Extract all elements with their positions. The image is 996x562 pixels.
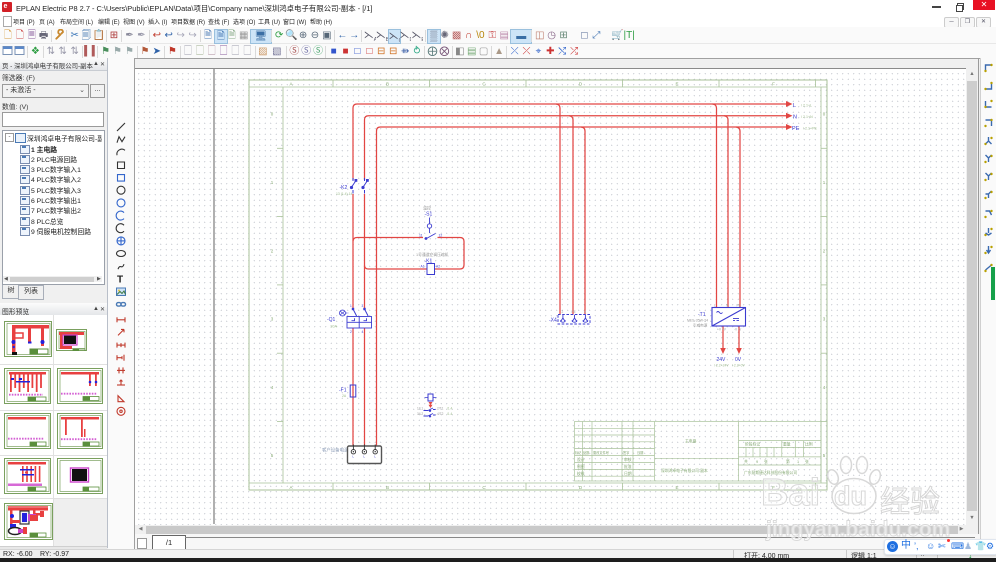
svg-text:/ 2.1+N: / 2.1+N — [801, 115, 813, 119]
wire gaps — [350, 180, 368, 317]
svg-text:3: 3 — [271, 317, 274, 322]
svg-text:第: 第 — [786, 459, 790, 464]
terminal pin — [363, 445, 365, 450]
coil K1 — [427, 264, 435, 275]
svg-text:-X4: -X4 — [549, 318, 557, 324]
svg-text:D: D — [579, 485, 583, 490]
svg-text:4: 4 — [584, 310, 586, 314]
svg-text:A: A — [289, 82, 292, 87]
page tab strip — [135, 534, 980, 550]
wire bus N top — [369, 115, 787, 117]
wire control loop bottom — [365, 266, 427, 270]
svg-text:A1: A1 — [421, 265, 425, 269]
menu bar — [0, 14, 996, 27]
svg-text:3/L2: 3/L2 — [417, 412, 423, 416]
svg-text:3: 3 — [823, 317, 826, 322]
svg-text:E: E — [675, 82, 678, 87]
svg-text:4: 4 — [362, 330, 364, 334]
svg-text:-S1: -S1 — [425, 212, 433, 218]
svg-text:1: 1 — [797, 460, 799, 464]
arrow T1 24V — [720, 348, 726, 354]
svg-text:11: 11 — [419, 234, 423, 238]
svg-text:PE: PE — [792, 126, 800, 132]
pages tree — [2, 130, 105, 285]
svg-text:T: T — [117, 274, 123, 285]
contact K2 pole2 — [363, 178, 368, 194]
svg-text:张: 张 — [764, 459, 768, 464]
socket X4 box — [558, 315, 590, 325]
tray download arrow — [968, 551, 973, 560]
svg-text:2: 2 — [562, 310, 564, 314]
T1 AC symbol — [717, 312, 723, 314]
svg-text:-V -V: -V -V — [734, 328, 742, 332]
svg-text:2/T1: 2/T1 — [437, 407, 444, 411]
svg-text:批准: 批准 — [624, 464, 632, 469]
toolbar row 1 — [0, 27, 996, 44]
svg-text:制图: 制图 — [577, 464, 585, 469]
svg-text:A2: A2 — [436, 265, 440, 269]
svg-text:1: 1 — [271, 180, 274, 185]
wire drop to T1 L — [713, 104, 717, 308]
socket X4 pin 3 — [583, 315, 588, 322]
svg-text:0: 0 — [823, 112, 826, 117]
svg-text:-F1: -F1 — [339, 388, 347, 394]
svg-text:/ 2.1+L: / 2.1+L — [801, 104, 812, 108]
svg-text:温控: 温控 — [423, 205, 431, 211]
svg-text:NES-35W-24: NES-35W-24 — [687, 319, 708, 323]
svg-text:主电路: 主电路 — [685, 439, 697, 444]
svg-text:2: 2 — [350, 330, 352, 334]
svg-text:比例: 比例 — [805, 442, 813, 447]
svg-text:L: L — [793, 103, 796, 109]
wire vertical L1 — [353, 104, 357, 446]
svg-text:4/T2: 4/T2 — [437, 412, 444, 416]
svg-text:A: A — [289, 485, 292, 490]
svg-text:深圳鸿卓电子有限公司-副本: 深圳鸿卓电子有限公司-副本 — [661, 468, 708, 473]
breaker Q1 actuator — [340, 310, 350, 316]
page left edge — [213, 69, 215, 524]
svg-text:24V: 24V — [717, 357, 727, 363]
drawing canvas area — [134, 58, 981, 550]
svg-text:3: 3 — [362, 304, 364, 308]
title block — [575, 422, 822, 482]
fuse F1 — [350, 385, 356, 397]
switch S1 symbol — [426, 218, 436, 240]
svg-text:C: C — [482, 485, 486, 490]
contactor K1 linked contact 1 — [424, 408, 436, 411]
svg-text:1: 1 — [823, 180, 826, 185]
svg-text:阶段标记: 阶段标记 — [745, 442, 760, 447]
svg-text:/1.4: /1.4 — [447, 407, 453, 411]
toolbar row 2 — [0, 44, 996, 59]
svg-text:0V: 0V — [735, 357, 742, 363]
socket X4 pin 2 — [572, 315, 577, 322]
terminal pin — [352, 445, 354, 450]
wire drop to T1 N — [724, 116, 728, 308]
svg-text:C: C — [482, 82, 486, 87]
svg-text:张: 张 — [805, 459, 809, 464]
svg-text:B: B — [386, 485, 389, 490]
dark taskbar sliver — [0, 558, 996, 562]
wire control loop top — [353, 238, 423, 242]
svg-text:+V +V: +V +V — [717, 328, 727, 332]
svg-text:F: F — [772, 82, 775, 87]
svg-text:9: 9 — [756, 460, 758, 464]
drawing frame outer border — [249, 80, 827, 490]
T1 DC symbol — [733, 319, 739, 321]
svg-text:D: D — [579, 82, 583, 87]
svg-text:设计: 设计 — [577, 457, 585, 462]
power supply T1 box — [712, 308, 746, 327]
svg-text:客户设备电源: 客户设备电源 — [322, 447, 349, 454]
terminal pin — [374, 445, 376, 450]
contactor K1 linked contact 2 — [424, 414, 436, 417]
contactor K1 mirror coil — [428, 394, 433, 401]
wire drop to X4 pinPE — [581, 127, 585, 315]
wire vertical L2 — [365, 116, 369, 446]
arrow bus PE — [786, 124, 793, 130]
contact K2 pole1 — [351, 178, 356, 194]
wire drop to T1 PE — [736, 127, 740, 308]
svg-text:日期: 日期 — [624, 471, 632, 476]
svg-text:2: 2 — [271, 248, 274, 253]
svg-text:E: E — [675, 485, 678, 490]
left pages navigator panel — [0, 58, 108, 303]
left drawing toolbar — [108, 58, 135, 549]
svg-text:重量: 重量 — [783, 442, 791, 447]
svg-text:/ 2.1+PE: / 2.1+PE — [803, 127, 817, 131]
svg-text:PE: PE — [572, 310, 576, 314]
svg-text:10A: 10A — [330, 324, 337, 329]
svg-text:4: 4 — [823, 385, 826, 390]
wire drop to X4 pin1 — [556, 104, 560, 315]
svg-text:校核: 校核 — [577, 471, 585, 476]
right toolbar active marker — [991, 267, 995, 300]
tree/list tabs — [2, 285, 20, 299]
wire vertical L3 — [377, 127, 381, 446]
wire T1 out 24V — [722, 326, 724, 349]
svg-text:更改文件号: 更改文件号 — [593, 450, 609, 455]
drawing frame inner lines — [249, 80, 827, 490]
wire bus L top — [357, 103, 786, 105]
baidu watermark — [761, 472, 820, 515]
svg-text:4: 4 — [271, 385, 274, 390]
svg-text:1/L1: 1/L1 — [417, 407, 423, 411]
svg-text:审核: 审核 — [624, 457, 632, 462]
svg-text:-K2: -K2 — [340, 185, 348, 191]
breaker Q1 body — [347, 317, 372, 329]
frame column letters — [271, 82, 826, 490]
arrow bus L — [786, 101, 793, 107]
canvas horizontal scrollbar — [135, 525, 966, 534]
svg-text:12: 12 — [439, 234, 443, 238]
svg-text:-T1: -T1 — [698, 312, 706, 318]
svg-text:L: L — [714, 304, 716, 308]
svg-text:PE: PE — [737, 304, 741, 308]
svg-text:0: 0 — [271, 112, 274, 117]
svg-text:B: B — [386, 82, 389, 87]
breaker Q1 blades — [353, 309, 368, 316]
svg-text:共: 共 — [744, 459, 748, 464]
svg-text:/ 2.2+24V: / 2.2+24V — [714, 364, 729, 368]
svg-text:/ 2.2+0V: / 2.2+0V — [732, 364, 745, 368]
status bar — [0, 549, 996, 559]
wire drop to X4 pin2 — [569, 116, 573, 315]
svg-text:标记: 标记 — [575, 450, 582, 455]
graphic preview panel — [0, 303, 108, 548]
svg-text:5: 5 — [271, 453, 274, 458]
svg-text:13 (1.4) 14: 13 (1.4) 14 — [336, 192, 353, 196]
svg-text:N: N — [793, 115, 797, 121]
wire bus PE top — [381, 126, 787, 128]
svg-text:1: 1 — [350, 304, 352, 308]
svg-text:1号通道空调压缩机: 1号通道空调压缩机 — [416, 252, 449, 257]
svg-text:2: 2 — [823, 248, 826, 253]
right connection-symbol toolbar — [980, 58, 996, 549]
svg-text:日期: 日期 — [637, 450, 643, 455]
svg-text:处数: 处数 — [583, 450, 590, 455]
svg-text:签字: 签字 — [623, 450, 629, 455]
terminal box — [348, 446, 382, 464]
wire T1 out 0V — [738, 326, 740, 349]
canvas vertical scrollbar — [966, 68, 978, 524]
arrow T1 0V — [736, 348, 742, 354]
svg-text:-Q1: -Q1 — [327, 317, 336, 323]
title bar — [0, 0, 996, 14]
wire control loop right — [435, 238, 465, 270]
arrow bus N — [786, 113, 793, 119]
contactor K1 mirror arrows — [429, 402, 433, 408]
input method toolbar — [884, 539, 996, 555]
svg-text:/1.4: /1.4 — [447, 412, 453, 416]
svg-text:2A: 2A — [342, 394, 347, 398]
socket X4 pin 1 — [561, 315, 566, 322]
svg-text:引威电源: 引威电源 — [693, 323, 708, 328]
